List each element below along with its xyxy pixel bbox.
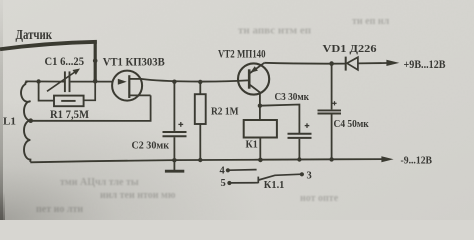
contact 5 line [231, 182, 258, 184]
contact arm [259, 174, 302, 180]
contact 4 line [230, 169, 257, 172]
relay K1 coil lead top [259, 106, 261, 120]
relay K1 body [244, 120, 277, 138]
arrowhead VT2 emitter [250, 66, 258, 73]
arrowhead +output [386, 60, 399, 66]
node R2 top [198, 80, 202, 84]
capacitor C1 trimmer arrow [47, 71, 77, 91]
transistor VT2 body [238, 63, 269, 94]
capacitor C2 branch [173, 82, 175, 131]
node: sensor antenna thick wire [0, 42, 97, 49]
wire: drain rail to VT2 base [142, 79, 248, 82]
transistor VT2 emitter lead [250, 63, 264, 73]
node sensor/gate dot upper [93, 59, 98, 64]
node C2 top [172, 80, 176, 84]
wire: sensor vertical drop [94, 40, 97, 82]
wire: source tap from L1 to VT1 [31, 95, 151, 121]
transistor VT2 collector lead [250, 85, 260, 106]
diode VD1 cathode bar [345, 57, 347, 71]
node sensor/gate dot lower [93, 79, 98, 84]
transistor VT1 gate bar [128, 75, 130, 98]
wire: collector node to C3 [260, 105, 300, 134]
wire: tank top wire right segment to VT1 gate [70, 81, 112, 83]
wire: VD1 to +output arrow [358, 62, 387, 64]
contact 3 terminal [300, 172, 304, 176]
diode VD1 triangle [347, 57, 358, 70]
node collector junction [258, 104, 262, 108]
transistor VT2 base bar [248, 69, 251, 88]
ground [173, 160, 175, 170]
bleed-through ghost marks [36, 16, 390, 215]
arrowhead -output [381, 156, 393, 162]
contact 5 tick [257, 177, 259, 184]
arrowhead VT1 gate [118, 79, 127, 85]
transistor VT1 drain lead [129, 78, 142, 80]
node C3 bottom [297, 157, 301, 161]
resistor R2 branch [199, 82, 201, 94]
inductor L1 [21, 81, 30, 161]
wire: bottom rail [30, 159, 382, 162]
node C4 top [329, 61, 334, 66]
capacitor C1 plates [64, 71, 66, 92]
node C4 bottom [329, 157, 333, 161]
resistor R1 branch left [39, 82, 54, 101]
node C2 bottom [172, 158, 176, 162]
capacitor C3 plates [288, 133, 312, 135]
resistor R1 body [54, 96, 84, 107]
resistor R1 branch right riser [84, 82, 96, 101]
wire: emitter rail to VD1 [264, 62, 345, 65]
capacitor C4 branch [331, 64, 333, 110]
transistor VT1 body [112, 71, 142, 101]
wire: tank top wire left segment [25, 80, 64, 82]
contact 4 terminal [226, 168, 230, 172]
node R1 top junction [36, 79, 40, 83]
node R2 bottom [198, 158, 202, 162]
relay K1 coil lead bottom [259, 138, 261, 160]
node K1 bottom [258, 158, 263, 163]
capacitor C4 polarity [332, 101, 336, 105]
left page-edge shadow [0, 0, 3, 220]
capacitor C3 polarity [305, 123, 310, 128]
arrowhead C1 trimmer [73, 69, 81, 75]
switch K1.1 contacts [230, 170, 302, 184]
node L1 tap [28, 118, 33, 123]
transistor VT1 source lead [129, 94, 150, 96]
contact 5 terminal [227, 181, 231, 185]
capacitor C2 polarity [178, 122, 183, 127]
